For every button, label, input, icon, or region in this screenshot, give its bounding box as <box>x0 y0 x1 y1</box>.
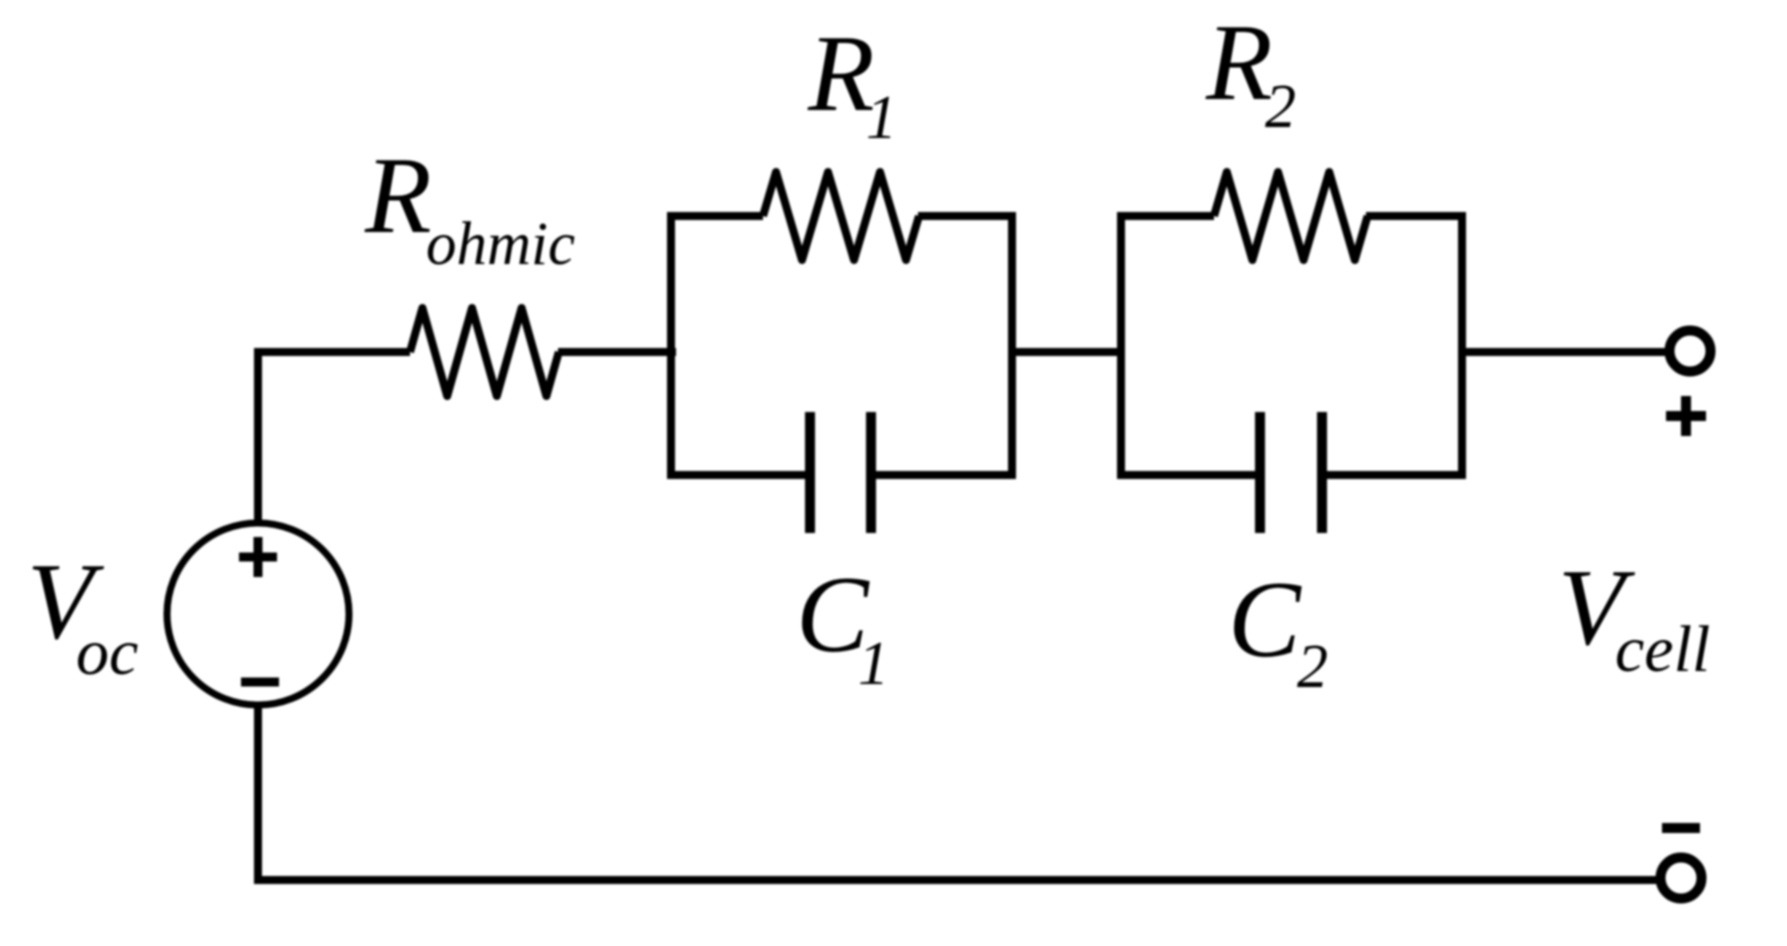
svg-text:ohmic: ohmic <box>426 211 575 278</box>
svg-text:R: R <box>1205 2 1273 123</box>
resistor R2 zigzag <box>1214 172 1368 260</box>
svg-text:cell: cell <box>1615 613 1710 686</box>
node B left vertical of RC block 1 <box>667 212 675 479</box>
wire top-left of RC block 2 <box>1117 212 1214 220</box>
negative output terminal circle <box>1661 858 1702 899</box>
svg-text:2: 2 <box>1297 633 1328 701</box>
wire bottom-right of RC block 1 <box>876 471 1016 479</box>
capacitor C1 left plate <box>805 412 815 533</box>
svg-text:2: 2 <box>1265 73 1296 141</box>
wire from RC block 1 to RC block 2 <box>1012 348 1121 356</box>
resistor Rohmic zigzag <box>410 308 559 396</box>
wire bottom-left of RC block 2 <box>1117 471 1255 479</box>
wire from Voc bottom down to bottom rail <box>254 705 262 884</box>
voltage source Voc plus sign <box>239 537 277 577</box>
svg-text:1: 1 <box>858 630 889 698</box>
right vertical of RC block 2 <box>1458 212 1466 479</box>
wire from node A top-left corner to Rohmic <box>254 348 410 356</box>
wire from Rohmic to RC block 1 <box>558 348 676 356</box>
capacitor C2 right plate <box>1317 412 1327 533</box>
wire top-left of RC block 1 <box>668 212 763 220</box>
voltage source Voc minus sign <box>241 678 279 687</box>
capacitor C2 left plate <box>1255 412 1265 533</box>
resistor R1 zigzag <box>763 172 919 260</box>
right vertical of RC block 1 <box>1008 212 1016 479</box>
svg-text:R: R <box>807 13 875 134</box>
wire bottom rail <box>254 876 1660 884</box>
node C left vertical of RC block 2 <box>1117 212 1125 479</box>
capacitor C1 right plate <box>866 412 876 533</box>
voltage source Voc circle <box>167 523 349 705</box>
minus sign at negative terminal <box>1662 823 1700 833</box>
svg-text:C: C <box>1228 559 1302 680</box>
positive output terminal circle <box>1670 331 1711 372</box>
svg-text:R: R <box>364 135 432 256</box>
wire top-right of RC block 1 <box>918 212 1016 220</box>
svg-text:1: 1 <box>866 84 897 152</box>
plus sign at positive terminal <box>1666 396 1706 436</box>
wire bottom-left of RC block 1 <box>668 471 805 479</box>
wire bottom-right of RC block 2 <box>1327 471 1466 479</box>
wire top-right of RC block 2 <box>1366 212 1466 220</box>
wire left vertical from node A down to Voc top <box>254 348 262 523</box>
svg-text:oc: oc <box>76 616 138 689</box>
wire from RC block 2 to positive terminal <box>1462 348 1669 356</box>
